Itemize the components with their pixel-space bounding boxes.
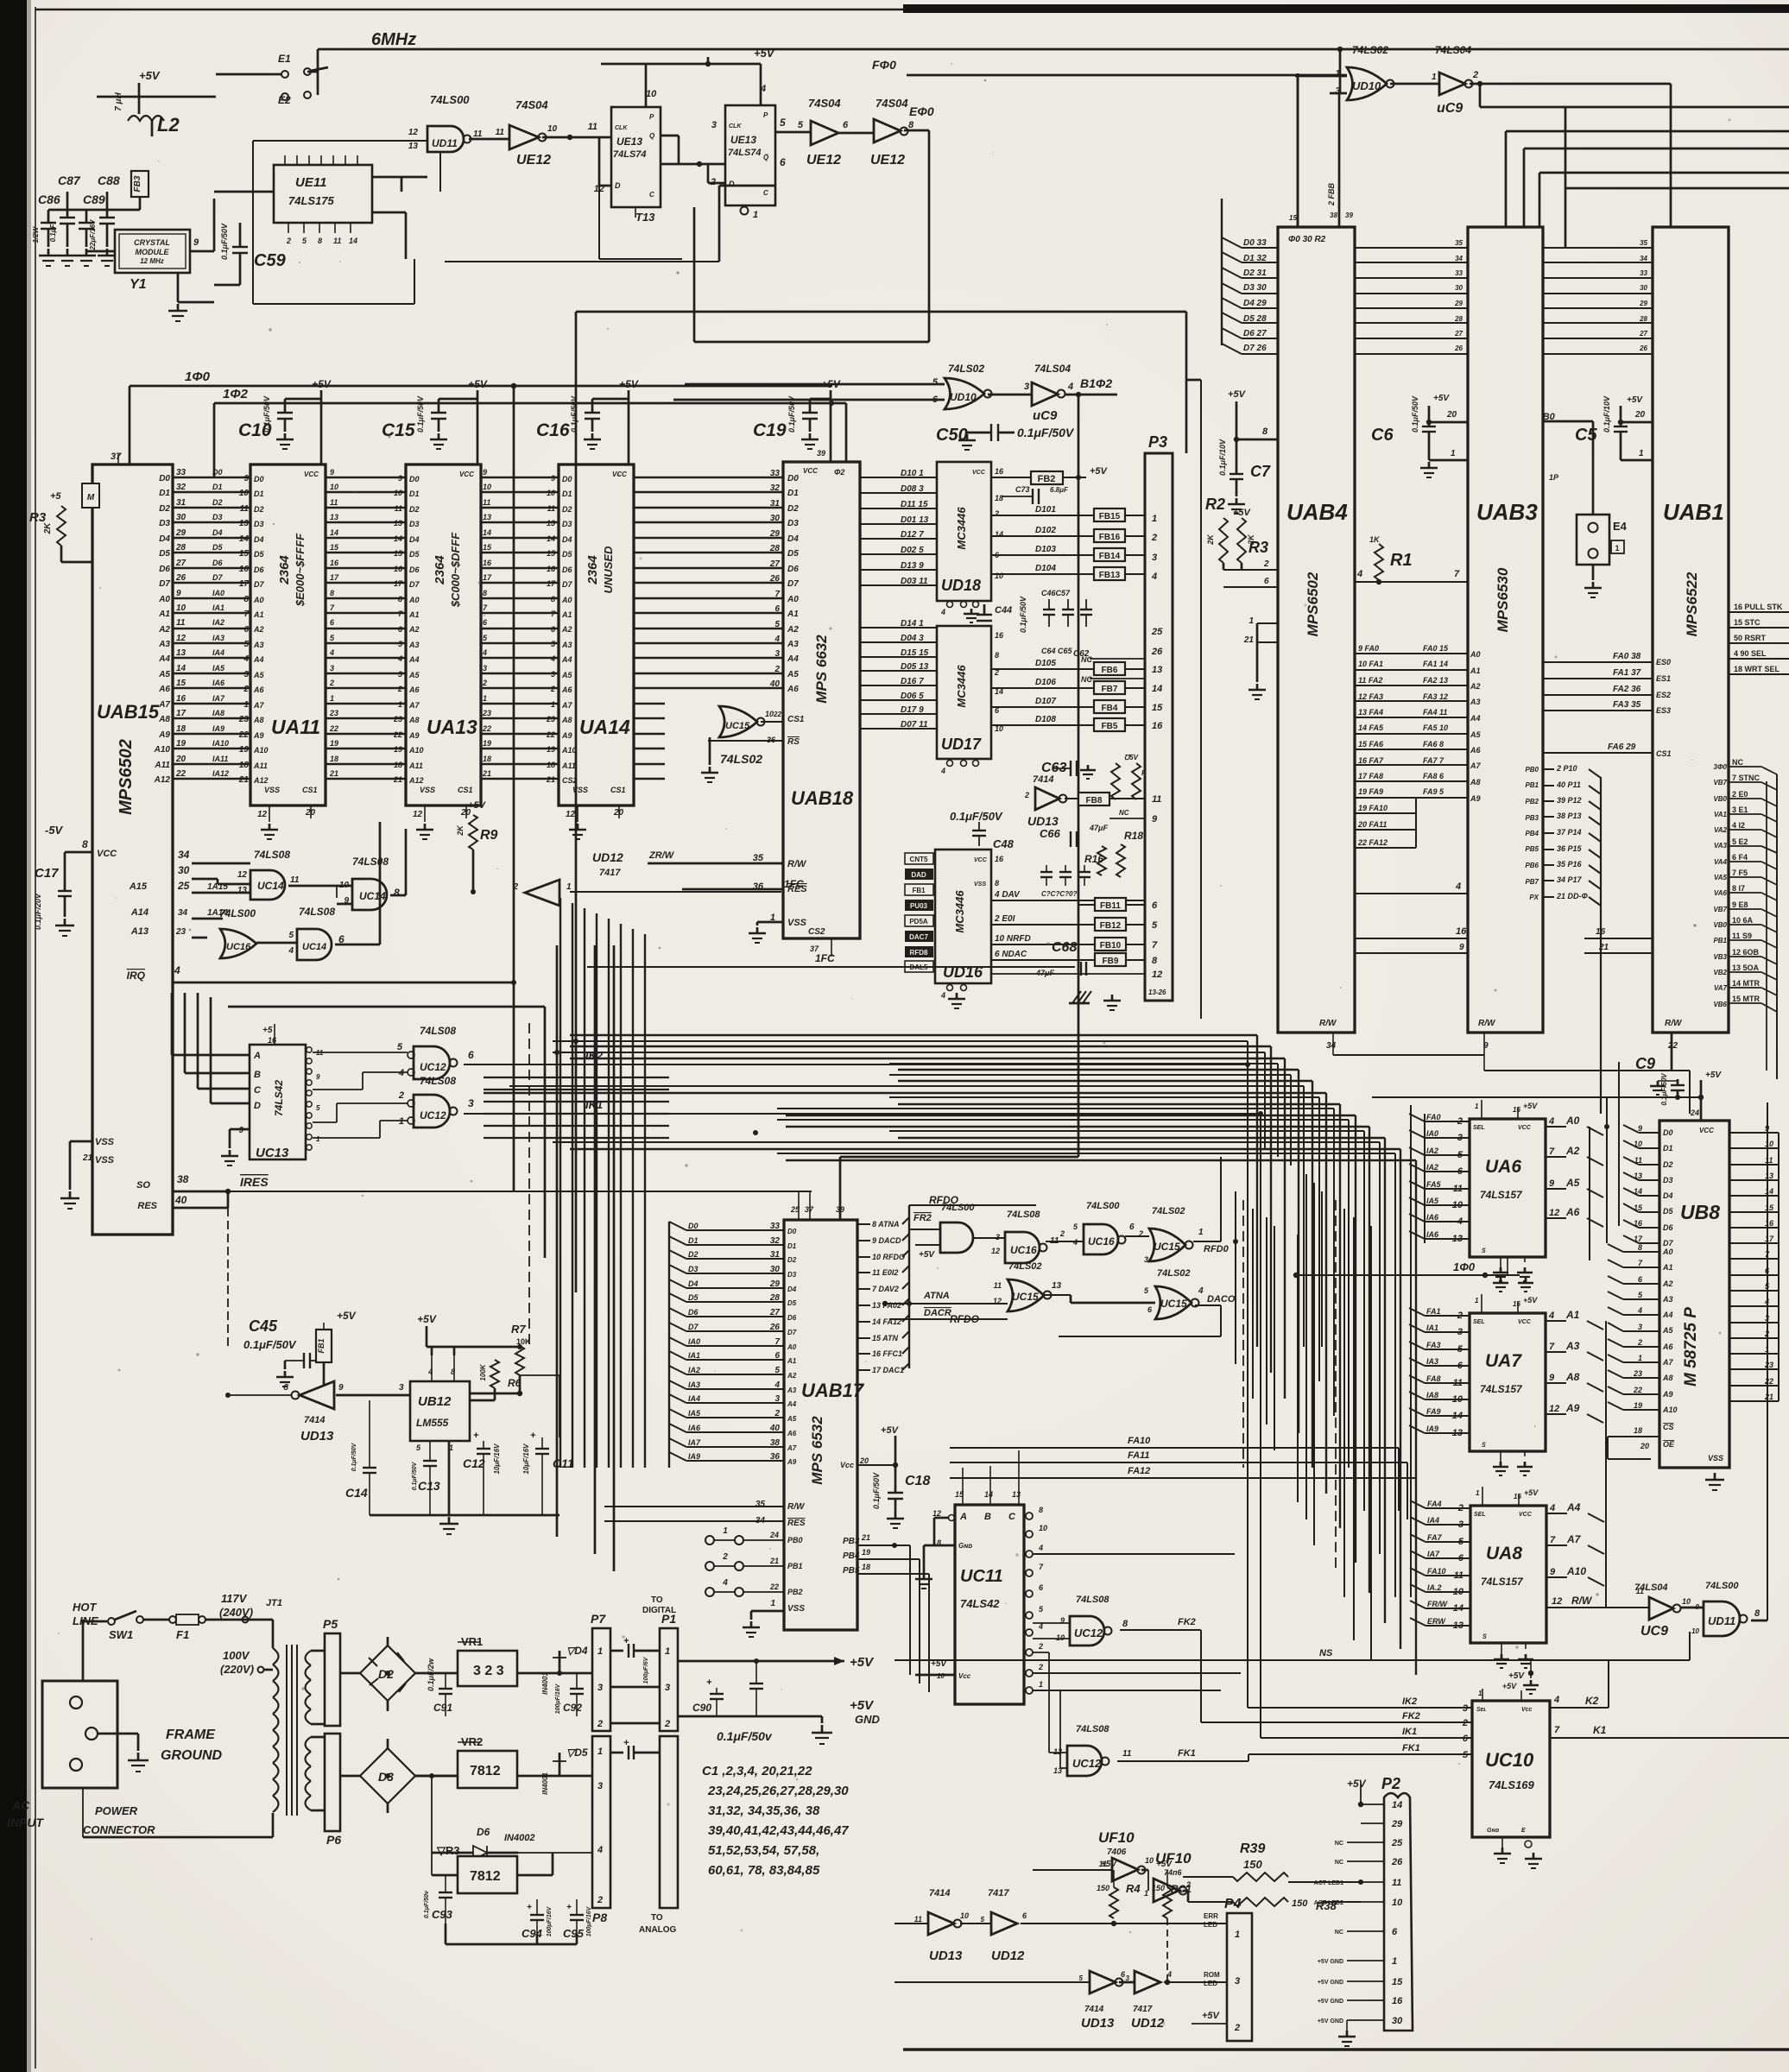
- svg-text:4: 4: [597, 1845, 603, 1855]
- wire K2 out: [1550, 1707, 1609, 1709]
- svg-text:2: 2: [597, 1895, 603, 1905]
- svg-text:C1 ,2,3,4, 20,21,22: C1 ,2,3,4, 20,21,22: [702, 1764, 812, 1778]
- svg-text:C5: C5: [1575, 426, 1597, 445]
- svg-text:0.1μF/50V: 0.1μF/50V: [262, 395, 271, 433]
- svg-text:D105: D105: [1035, 659, 1056, 668]
- svg-text:P5: P5: [323, 1617, 338, 1631]
- svg-text:9: 9: [338, 1383, 344, 1393]
- svg-text:26: 26: [175, 573, 186, 583]
- wire ATNA: [885, 1303, 1008, 1304]
- svg-text:INPUT: INPUT: [7, 1816, 44, 1829]
- svg-text:22: 22: [1764, 1377, 1773, 1386]
- label IK2: [585, 1049, 604, 1062]
- svg-text:150: 150: [1097, 1884, 1109, 1892]
- svg-text:26: 26: [769, 1323, 781, 1332]
- svg-text:uC9: uC9: [1033, 408, 1058, 423]
- svg-text:D4: D4: [254, 535, 264, 544]
- svg-text:A4: A4: [158, 654, 170, 664]
- svg-text:8: 8: [243, 595, 249, 604]
- wire inv to FF1: [542, 136, 611, 139]
- svg-text:+5V: +5V: [139, 69, 161, 82]
- svg-text:74LS02: 74LS02: [720, 752, 762, 766]
- svg-text:8: 8: [394, 887, 400, 899]
- svg-text:21: 21: [329, 769, 338, 778]
- svg-text:16: 16: [239, 565, 250, 574]
- svg-text:+: +: [473, 1431, 479, 1441]
- svg-text:A9: A9: [253, 731, 264, 740]
- svg-text:D0: D0: [562, 475, 572, 483]
- svg-text:19: 19: [547, 745, 555, 754]
- svg-text:6: 6: [1457, 1166, 1463, 1177]
- label ATNA: [923, 1291, 950, 1301]
- svg-text:+5V: +5V: [312, 378, 332, 390]
- svg-text:PB4: PB4: [843, 1551, 860, 1561]
- svg-text:74LS00: 74LS00: [1705, 1581, 1739, 1591]
- svg-text:Vᴄᴄ: Vᴄᴄ: [958, 1672, 971, 1680]
- capacitor at rail: [755, 1661, 757, 1683]
- svg-text:UAB15: UAB15: [97, 701, 160, 723]
- svg-text:19: 19: [330, 739, 338, 748]
- svg-text:UC11: UC11: [960, 1567, 1003, 1586]
- svg-text:D3: D3: [787, 1271, 797, 1279]
- ground UD16: [956, 993, 958, 999]
- svg-text:2: 2: [1764, 1330, 1769, 1338]
- svg-text:+5V: +5V: [850, 1655, 875, 1670]
- svg-text:4: 4: [1637, 1306, 1642, 1315]
- svg-text:D1: D1: [787, 489, 799, 498]
- svg-text:PB3: PB3: [843, 1537, 860, 1546]
- wire right edge vertical bus: [1776, 774, 1778, 1079]
- svg-text:D108: D108: [1035, 715, 1056, 724]
- connector P4: [1227, 1913, 1252, 2041]
- svg-text:11: 11: [496, 128, 505, 137]
- svg-text:+5V: +5V: [1433, 394, 1450, 403]
- label capacitor list: [702, 1764, 849, 1878]
- svg-text:12 6OB: 12 6OB: [1732, 948, 1760, 957]
- svg-text:3Φ0: 3Φ0: [1714, 763, 1728, 771]
- connector P1 digital: [660, 1628, 678, 1731]
- svg-text:C93: C93: [432, 1908, 453, 1921]
- wire VSS UAB3: [1429, 459, 1468, 462]
- svg-text:34: 34: [178, 908, 188, 918]
- svg-text:S̅: S̅: [1482, 1633, 1487, 1640]
- svg-text:D03 11: D03 11: [901, 577, 928, 586]
- svg-text:1: 1: [330, 694, 334, 703]
- svg-text:22: 22: [393, 730, 402, 739]
- svg-text:14: 14: [176, 664, 186, 673]
- svg-text:R3: R3: [29, 510, 47, 525]
- svg-text:UD13: UD13: [929, 1949, 963, 1963]
- svg-text:POWER: POWER: [95, 1804, 138, 1817]
- svg-text:14: 14: [394, 534, 402, 543]
- svg-text:7417: 7417: [599, 868, 621, 878]
- svg-text:9: 9: [1549, 1373, 1555, 1383]
- svg-text:3: 3: [711, 120, 717, 130]
- svg-text:PB2: PB2: [1525, 798, 1539, 805]
- ground C86: [47, 249, 50, 256]
- svg-text:3: 3: [551, 670, 555, 679]
- svg-text:1: 1: [398, 700, 402, 709]
- svg-text:DIGITAL: DIGITAL: [642, 1606, 676, 1615]
- svg-text:OE: OE: [1663, 1440, 1675, 1449]
- svg-text:1: 1: [399, 1116, 404, 1127]
- wire E0I: [991, 924, 1094, 925]
- svg-text:10: 10: [1452, 1200, 1463, 1210]
- wire E4 ground: [1592, 565, 1595, 580]
- svg-text:74LS157: 74LS157: [1481, 1576, 1524, 1588]
- svg-text:A9: A9: [1662, 1390, 1673, 1399]
- svg-text:D6 27: D6 27: [1243, 329, 1267, 338]
- pins UC13 right: [307, 1047, 312, 1052]
- svg-text:IK1: IK1: [585, 1098, 603, 1111]
- svg-text:ES3: ES3: [1656, 706, 1671, 715]
- svg-text:IA2: IA2: [1426, 1163, 1438, 1172]
- svg-text:PU03: PU03: [910, 902, 928, 910]
- svg-text:C: C: [763, 189, 768, 197]
- svg-text:16: 16: [330, 559, 339, 567]
- svg-text:D1: D1: [562, 490, 572, 498]
- svg-text:15: 15: [394, 549, 403, 558]
- svg-text:100μF/16V: 100μF/16V: [555, 1683, 561, 1714]
- svg-text:FA6 29: FA6 29: [1608, 742, 1636, 752]
- svg-text:CS2: CS2: [808, 927, 825, 937]
- label Y1: [130, 277, 147, 292]
- label IK1: [585, 1098, 603, 1111]
- svg-text:D2: D2: [159, 504, 170, 514]
- svg-text:10: 10: [1682, 1597, 1691, 1606]
- svg-text:D5: D5: [409, 550, 420, 559]
- svg-text:11: 11: [588, 122, 597, 132]
- svg-text:10: 10: [995, 572, 1003, 580]
- svg-text:VCC: VCC: [459, 471, 474, 478]
- svg-text:39: 39: [1345, 212, 1353, 219]
- svg-text:D2: D2: [688, 1250, 699, 1259]
- svg-text:+5V: +5V: [1508, 1671, 1525, 1681]
- ferrite beads FB11/FB12/FB10/FB9: [1095, 898, 1126, 911]
- svg-text:6: 6: [1457, 1361, 1463, 1371]
- wire D-bus chevron left of UAB4: [1221, 199, 1223, 345]
- svg-text:A2: A2: [787, 1372, 797, 1380]
- svg-text:UC12: UC12: [1074, 1627, 1103, 1639]
- svg-text:1: 1: [1476, 1489, 1480, 1497]
- svg-text:+5V: +5V: [1347, 1778, 1367, 1790]
- svg-text:Gɴᴅ: Gɴᴅ: [958, 1542, 972, 1550]
- svg-text:0.1μF/50V: 0.1μF/50V: [243, 1338, 297, 1351]
- svg-text:17 FA8: 17 FA8: [1358, 772, 1383, 780]
- svg-text:Q̅: Q̅: [763, 154, 769, 161]
- svg-text:13: 13: [1452, 1234, 1463, 1244]
- svg-text:C48: C48: [993, 837, 1015, 850]
- svg-text:2: 2: [994, 509, 999, 518]
- svg-text:IA0: IA0: [1426, 1129, 1438, 1138]
- svg-text:17: 17: [239, 579, 250, 589]
- svg-text:A6: A6: [253, 685, 264, 694]
- svg-text:A8: A8: [408, 716, 420, 724]
- svg-text:74S04: 74S04: [808, 97, 841, 110]
- svg-text:2K: 2K: [1206, 534, 1215, 546]
- wire horizontal y1166: [228, 1006, 545, 1008]
- svg-text:7414: 7414: [1084, 2005, 1104, 2014]
- svg-text:CS2: CS2: [562, 776, 578, 785]
- svg-text:P8: P8: [592, 1911, 607, 1924]
- svg-text:2K: 2K: [43, 522, 53, 535]
- wire stack right 2: [1506, 130, 1789, 133]
- svg-text:R18: R18: [1124, 830, 1143, 842]
- svg-text:100V: 100V: [223, 1649, 250, 1662]
- svg-text:74LS00: 74LS00: [219, 907, 256, 919]
- svg-text:+5V: +5V: [850, 1698, 875, 1713]
- svg-text:NC: NC: [1335, 1860, 1343, 1866]
- label P4: [1224, 1897, 1242, 1911]
- wire crystal right pin 9: [190, 250, 214, 253]
- svg-text:D17 9: D17 9: [901, 705, 924, 715]
- svg-text:27: 27: [1639, 330, 1647, 338]
- ferrite bead FB3: [131, 171, 149, 197]
- page border line top: [35, 9, 1789, 11]
- svg-text:FA7: FA7: [1427, 1533, 1443, 1542]
- wire jumper to 6MHz: [317, 49, 319, 95]
- svg-text:1: 1: [1392, 1956, 1397, 1967]
- svg-text:22: 22: [238, 730, 250, 740]
- wire trunk x689: [594, 945, 597, 1554]
- svg-text:8: 8: [551, 595, 555, 603]
- svg-text:VB0: VB0: [1713, 921, 1727, 929]
- pins UD18 bottom: [947, 602, 953, 608]
- svg-text:4 DAV: 4 DAV: [994, 890, 1021, 900]
- wire RES row UAB1: [1584, 938, 1653, 939]
- label F00: [872, 58, 896, 72]
- svg-text:15: 15: [330, 543, 339, 552]
- svg-text:A5: A5: [253, 671, 264, 679]
- svg-text:1: 1: [770, 1599, 775, 1608]
- svg-text:NC: NC: [1119, 809, 1129, 817]
- svg-text:22: 22: [546, 730, 555, 739]
- svg-text:12 FA3: 12 FA3: [1358, 692, 1383, 701]
- svg-text:D1: D1: [254, 490, 264, 498]
- svg-text:IA9: IA9: [688, 1452, 700, 1461]
- svg-text:2: 2: [286, 237, 291, 245]
- svg-text:UD11: UD11: [432, 137, 458, 149]
- svg-text:12: 12: [257, 810, 268, 819]
- label E00: [909, 104, 934, 118]
- ground UA11: [269, 824, 271, 830]
- svg-text:4: 4: [1764, 1298, 1769, 1306]
- svg-text:22: 22: [329, 724, 338, 733]
- wire B1phi2 down: [1065, 394, 1117, 396]
- svg-text:4: 4: [722, 1578, 728, 1588]
- svg-text:+5: +5: [50, 491, 61, 502]
- svg-text:11: 11: [176, 618, 186, 628]
- svg-text:SEL: SEL: [1473, 1125, 1485, 1131]
- svg-text:VCC: VCC: [1518, 1125, 1532, 1131]
- svg-text:29: 29: [1391, 1819, 1403, 1829]
- svg-text:UE13: UE13: [616, 136, 642, 148]
- wire P7 P1 rows: [610, 1686, 660, 1689]
- svg-text:1: 1: [316, 1135, 320, 1143]
- wire A-bus UAB4 to UAB3 with labels: [1355, 653, 1468, 654]
- wire NS: [894, 1659, 1690, 1661]
- svg-text:10μF/16V: 10μF/16V: [493, 1443, 501, 1475]
- svg-text:74LS02: 74LS02: [948, 363, 984, 375]
- svg-text:A6: A6: [408, 685, 420, 694]
- svg-text:32: 32: [176, 483, 186, 492]
- wire mesh extra verticals: [1256, 1035, 1258, 1347]
- connector P7: [592, 1628, 610, 1731]
- wires UC12d inputs: [337, 1102, 408, 1104]
- ground UA14: [577, 824, 579, 830]
- svg-text:10: 10: [960, 1911, 969, 1920]
- wires UD18 to FB row: [991, 515, 1094, 516]
- svg-text:VA7: VA7: [1714, 984, 1728, 992]
- svg-text:3: 3: [597, 1781, 603, 1791]
- svg-text:2: 2: [1024, 791, 1029, 799]
- svg-text:4: 4: [940, 991, 945, 1000]
- svg-text:7: 7: [1152, 940, 1158, 951]
- svg-text:UA14: UA14: [579, 716, 630, 738]
- svg-text:IA2: IA2: [212, 618, 224, 627]
- svg-text:10: 10: [547, 489, 555, 497]
- svg-text:74LS08: 74LS08: [420, 1025, 456, 1037]
- svg-text:A6: A6: [1470, 746, 1481, 755]
- svg-text:CS1: CS1: [302, 786, 318, 794]
- svg-text:D5: D5: [562, 550, 572, 559]
- svg-text:2364: 2364: [277, 555, 292, 585]
- svg-text:$C000~$DFFF: $C000~$DFFF: [449, 532, 462, 608]
- svg-text:0.1μF/50V: 0.1μF/50V: [787, 395, 796, 433]
- svg-text:+5V: +5V: [1627, 395, 1643, 405]
- svg-text:AC: AC: [11, 1798, 30, 1812]
- svg-text:D7: D7: [787, 1329, 797, 1336]
- svg-text:7 STNC: 7 STNC: [1732, 774, 1761, 782]
- svg-text:1: 1: [1235, 1930, 1240, 1940]
- svg-text:4: 4: [774, 635, 780, 644]
- svg-text:FA5: FA5: [1426, 1180, 1442, 1189]
- svg-text:16 FFC1: 16 FFC1: [872, 1349, 902, 1358]
- svg-text:3: 3: [1458, 1519, 1463, 1530]
- svg-text:PB0: PB0: [787, 1536, 803, 1545]
- wire VCC UAB4: [1236, 439, 1278, 441]
- svg-text:C17: C17: [35, 866, 59, 881]
- svg-text:UD18: UD18: [941, 577, 981, 594]
- svg-text:UC12: UC12: [420, 1109, 446, 1121]
- svg-text:1: 1: [1638, 1354, 1642, 1362]
- svg-text:A4: A4: [1566, 1501, 1581, 1513]
- svg-text:150: 150: [1292, 1898, 1308, 1909]
- svg-text:38 P13: 38 P13: [1557, 812, 1582, 820]
- svg-text:74LS02: 74LS02: [1352, 44, 1388, 56]
- svg-text:A: A: [253, 1051, 261, 1061]
- svg-text:150: 150: [1152, 1884, 1165, 1892]
- svg-text:10: 10: [394, 489, 402, 497]
- svg-text:34: 34: [178, 849, 190, 861]
- svg-text:ERW: ERW: [1427, 1617, 1446, 1626]
- svg-text:UA13: UA13: [427, 716, 477, 738]
- svg-text:21: 21: [482, 769, 491, 778]
- svg-text:C45: C45: [249, 1317, 278, 1335]
- svg-text:UC12: UC12: [1072, 1757, 1102, 1770]
- svg-text:A1: A1: [787, 610, 799, 619]
- svg-text:21: 21: [861, 1533, 870, 1542]
- wire FA bus UAB3 to UAB1 top rows: [1543, 661, 1653, 663]
- svg-text:D: D: [729, 180, 735, 188]
- ground C6: [1428, 462, 1431, 468]
- wire P2 +5V: [1360, 1784, 1362, 1804]
- svg-text:30: 30: [1455, 284, 1463, 292]
- svg-text:50 RSRT: 50 RSRT: [1734, 634, 1767, 642]
- crystal module Y1: [115, 230, 190, 273]
- svg-text:FB2: FB2: [1038, 474, 1056, 484]
- svg-text:D0: D0: [409, 475, 420, 483]
- svg-text:C7: C7: [1250, 463, 1271, 480]
- svg-text:A1: A1: [408, 610, 420, 619]
- svg-text:100μF/6V: 100μF/6V: [643, 1656, 649, 1683]
- svg-text:IA7: IA7: [212, 694, 225, 703]
- svg-text:+5V: +5V: [468, 378, 488, 390]
- svg-text:16: 16: [995, 855, 1004, 863]
- svg-text:1: 1: [1249, 616, 1254, 626]
- wire trunk x667: [575, 312, 578, 1292]
- svg-text:6 F4: 6 F4: [1732, 853, 1748, 862]
- svg-text:14: 14: [1453, 1603, 1463, 1614]
- svg-text:D2: D2: [1663, 1160, 1673, 1169]
- svg-text:9: 9: [1549, 1178, 1555, 1189]
- label NS: [1319, 1648, 1333, 1658]
- svg-text:13 FA4: 13 FA4: [1358, 708, 1383, 717]
- ground UC15cs: [709, 737, 711, 765]
- svg-text:FB11: FB11: [1100, 901, 1121, 911]
- svg-text:D6: D6: [1663, 1223, 1673, 1232]
- pins UB8 left A rows: [1608, 1244, 1623, 1252]
- wire stack right 4: [1539, 172, 1789, 174]
- jumpers PB0 PB1 PB2: [705, 1536, 714, 1545]
- svg-text:C19: C19: [753, 420, 787, 440]
- svg-text:6: 6: [774, 1351, 780, 1361]
- svg-text:+5V: +5V: [1228, 389, 1247, 400]
- svg-text:D1: D1: [212, 483, 223, 491]
- wire to transformer top: [205, 1619, 273, 1621]
- svg-text:A7: A7: [1566, 1533, 1582, 1545]
- svg-text:VSS: VSS: [420, 786, 435, 794]
- wire FK2: [1120, 1629, 1201, 1631]
- svg-text:R2: R2: [1205, 496, 1225, 513]
- svg-text:18: 18: [330, 755, 338, 763]
- svg-text:26: 26: [1151, 647, 1163, 657]
- svg-text:UC16: UC16: [1088, 1235, 1115, 1248]
- small box M: [82, 483, 99, 508]
- svg-text:UAB1: UAB1: [1663, 499, 1724, 525]
- wire trunk horizontals to UAB17 fan: [484, 1077, 669, 1078]
- svg-text:74LS04: 74LS04: [1034, 363, 1071, 375]
- page border line left: [35, 7, 36, 2069]
- label FA11: [1128, 1450, 1149, 1461]
- svg-text:4: 4: [482, 648, 487, 657]
- label B1phi2: [1080, 376, 1112, 390]
- svg-text:A0: A0: [1565, 1115, 1580, 1127]
- wire data trunk verticals left of UAB17: [559, 898, 561, 1468]
- svg-text:C11: C11: [553, 1456, 574, 1470]
- svg-text:FRAME: FRAME: [166, 1728, 216, 1742]
- svg-text:1Φ0: 1Φ0: [185, 370, 211, 384]
- svg-text:VA3: VA3: [1714, 842, 1728, 850]
- svg-text:2: 2: [994, 668, 999, 677]
- svg-text:26: 26: [1454, 344, 1463, 352]
- ferrite beads FB15/FB16/FB14/FB13: [1094, 509, 1125, 521]
- wire UD13a to UB12: [336, 1394, 410, 1397]
- pins UAB17 right fan: [857, 1223, 870, 1225]
- ground UAB4 VSS: [1256, 684, 1259, 690]
- svg-text:A4: A4: [561, 655, 572, 664]
- svg-text:B: B: [984, 1512, 991, 1522]
